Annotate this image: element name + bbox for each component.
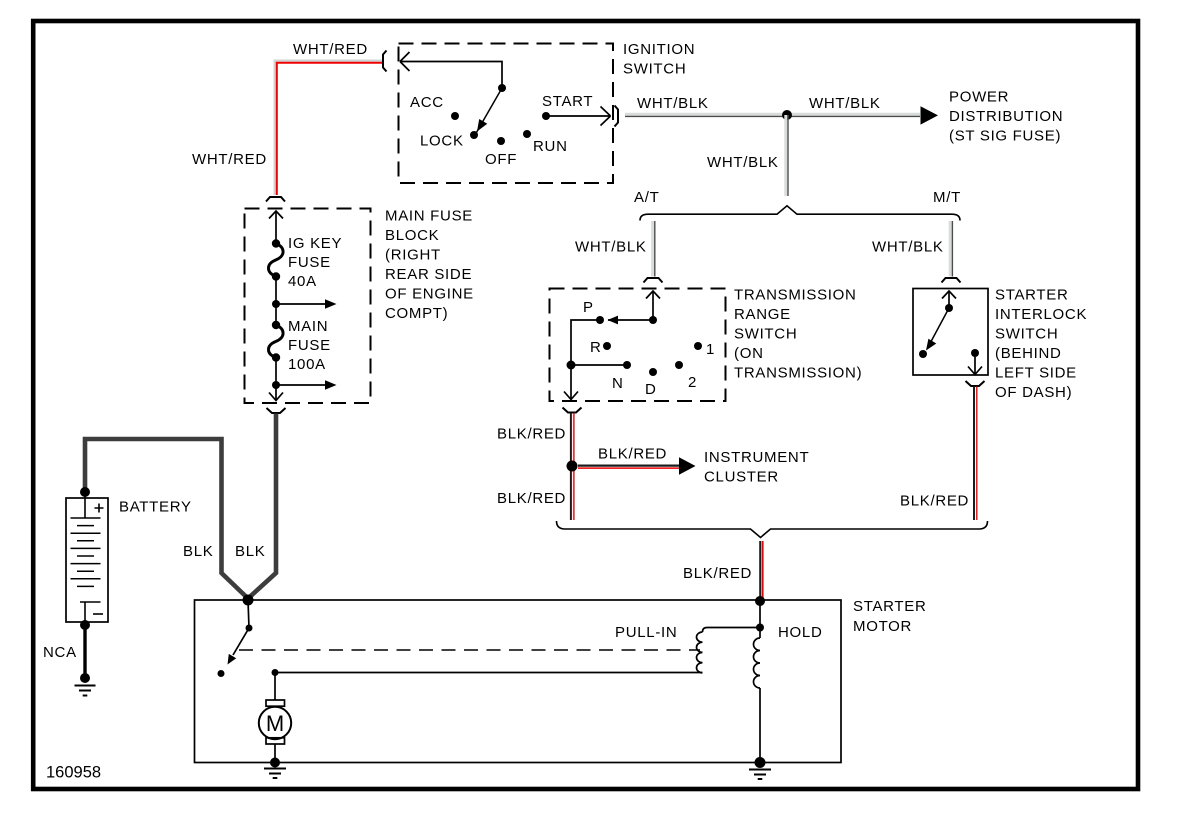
svg-text:BLK/RED: BLK/RED [497,490,566,507]
wire from P down [571,320,600,365]
svg-text:TRANSMISSION): TRANSMISSION) [734,365,862,382]
brace A/T M/T [640,206,960,221]
connector (female half) at ignition switch right [615,106,619,127]
wire BLK (battery to starter junction) [85,439,248,599]
svg-text:TRANSMISSION: TRANSMISSION [734,287,857,304]
ground (motor) [270,758,280,768]
svg-text:BLK/RED: BLK/RED [683,565,752,582]
wire BLK/RED interlock drop [974,387,977,521]
svg-text:(ON: (ON [734,345,764,362]
bottom gathering brace [557,521,988,538]
svg-text:RUN: RUN [533,138,568,155]
svg-text:D: D [645,381,657,398]
contact D [649,368,657,376]
interlock lever [945,304,953,312]
wire motor feed [272,669,279,676]
wire WHT/BLK A/T drop [653,221,655,277]
wire BLK/RED arrow to instrument cluster [578,466,680,469]
fuse MAIN FUSE 100A [275,304,277,325]
contact 2 [675,361,683,369]
svg-text:BLK: BLK [235,543,265,560]
starter motor box [195,600,842,763]
wire BLK (fuse block to starter junction) [248,414,276,599]
battery [80,487,90,497]
svg-text:STARTER: STARTER [853,598,927,615]
hold coil [759,628,761,639]
connector female at transmission range switch [644,278,663,283]
svg-text:HOLD: HOLD [778,624,822,641]
interlock contact right with down arrow [971,349,979,357]
svg-text:MAIN FUSE: MAIN FUSE [385,208,473,225]
svg-text:BLK/RED: BLK/RED [497,426,566,443]
junction node [567,461,578,472]
svg-text:IGNITION: IGNITION [623,41,695,58]
wire BLK/RED vertical (transmission to brace) [571,413,574,520]
arrowhead to power distribution [921,106,939,124]
svg-text:(BEHIND: (BEHIND [995,345,1062,362]
svg-text:OF DASH): OF DASH) [995,384,1072,401]
wiper node [649,316,657,324]
svg-text:WHT/BLK: WHT/BLK [575,239,647,256]
wire WHT/BLK M/T drop [950,221,952,277]
svg-text:SWITCH: SWITCH [734,326,797,343]
entry arrow (up) into interlock switch [942,291,956,308]
START output wire with open arrow right [546,107,611,126]
svg-text:BATTERY: BATTERY [119,499,192,516]
ground (hold coil) [755,757,766,768]
svg-text:WHT/BLK: WHT/BLK [637,95,709,112]
connector (female half) at ignition switch left [383,51,387,72]
svg-text:WHT/BLK: WHT/BLK [707,154,779,171]
motor M [274,673,276,701]
dashed wire to pull-in coil [239,649,700,651]
svg-text:2: 2 [688,374,697,391]
connector female at starter interlock switch [942,278,961,283]
wire BLK/RED to starter motor [760,541,763,601]
svg-text:R: R [590,339,602,356]
svg-text:RANGE: RANGE [734,306,791,323]
wire to tap 2 [275,357,277,385]
svg-text:WHT/BLK: WHT/BLK [872,239,944,256]
interlock contact left [919,350,927,358]
svg-text:INTERLOCK: INTERLOCK [995,306,1087,323]
svg-text:POWER: POWER [949,89,1009,106]
svg-text:OF ENGINE: OF ENGINE [385,286,474,303]
svg-text:ACC: ACC [410,94,444,111]
svg-text:WHT/RED: WHT/RED [192,151,267,168]
junction node [567,361,576,370]
connector female below transmission range switch [563,408,582,413]
svg-text:OFF: OFF [485,151,517,168]
svg-text:START: START [542,93,593,110]
starter interlock switch box [913,289,988,376]
svg-text:M: M [266,711,284,736]
contact R [603,342,611,350]
svg-text:SWITCH: SWITCH [623,61,686,78]
svg-text:SWITCH: SWITCH [995,326,1058,343]
svg-text:WHT/BLK: WHT/BLK [809,95,881,112]
battery - [93,613,103,615]
svg-text:(ST SIG FUSE): (ST SIG FUSE) [949,128,1061,145]
svg-text:LEFT SIDE: LEFT SIDE [995,365,1077,382]
svg-text:INSTRUMENT: INSTRUMENT [704,449,809,466]
exit arrow (down) from transmission range switch [564,365,578,400]
wire to P contact with arrowhead [608,319,653,321]
wire WHT/BLK horizontal to power distribution [625,114,920,116]
fuse IG KEY FUSE 40A [272,239,280,247]
svg-text:LOCK: LOCK [420,133,464,150]
svg-text:1: 1 [706,341,715,358]
transmission range switch box (dashed) [550,289,726,402]
wire WHT/BLK vertical drop to brace [786,115,788,196]
svg-text:BLK: BLK [183,543,213,560]
svg-text:WHT/RED: WHT/RED [293,41,368,58]
svg-text:REAR SIDE: REAR SIDE [385,266,472,283]
node BLK/RED at starter motor [755,596,765,606]
ground (battery) [80,673,90,683]
wire to N contact [571,364,627,366]
connector female below fuse block [267,408,286,413]
wire WHT/RED (ignition switch to main fuse block) [275,61,383,195]
svg-text:MOTOR: MOTOR [853,618,912,635]
main fuse block box (dashed) [245,209,371,404]
entry arrow (up) into transmission range switch [646,291,660,320]
svg-text:DISTRIBUTION: DISTRIBUTION [949,108,1063,125]
svg-text:IG KEY: IG KEY [288,235,342,252]
svg-text:FUSE: FUSE [288,337,331,354]
svg-text:PULL-IN: PULL-IN [615,624,677,641]
pull-in coil [697,632,703,673]
solenoid switch inside starter [248,600,249,628]
wire NCA [83,625,86,678]
svg-text:P: P [583,299,594,316]
battery plates [71,518,101,586]
svg-text:N: N [612,375,624,392]
svg-text:(RIGHT: (RIGHT [385,247,441,264]
svg-text:COMPT): COMPT) [385,305,448,322]
wire to tap 1 [275,276,277,304]
wire + open arrow pointing left inside ignition switch [400,52,502,86]
svg-text:MAIN: MAIN [288,318,328,335]
entry arrow (up) into fuse block [269,211,283,243]
junction node [782,110,792,120]
svg-text:A/T: A/T [634,189,659,206]
contact 1 [694,342,702,350]
svg-text:NCA: NCA [43,644,77,661]
svg-text:BLK/RED: BLK/RED [598,446,667,463]
svg-text:STARTER: STARTER [995,287,1069,304]
switch lever (ignition) [475,88,502,135]
contact N [623,361,631,369]
svg-text:FUSE: FUSE [288,254,331,271]
svg-text:40A: 40A [288,273,317,290]
battery internal stub bottom [80,601,101,603]
wire to pull-in coil [703,628,761,633]
junction node battery/fuse [243,595,254,606]
svg-text:CLUSTER: CLUSTER [704,469,779,486]
svg-text:BLK/RED: BLK/RED [900,493,969,510]
connector female at main fuse block top [266,197,285,202]
svg-text:160958: 160958 [46,764,101,782]
ignition switch box (dashed) [399,44,614,184]
battery internal stub top [84,492,86,518]
contact P [596,316,604,324]
battery + [95,504,104,513]
svg-text:BLOCK: BLOCK [385,227,439,244]
svg-text:M/T: M/T [933,189,961,206]
connector female below interlock switch [966,381,985,386]
svg-text:100A: 100A [288,356,326,373]
exit arrow (down) from fuse block [269,385,283,401]
contact dots ignition switch [498,84,506,92]
